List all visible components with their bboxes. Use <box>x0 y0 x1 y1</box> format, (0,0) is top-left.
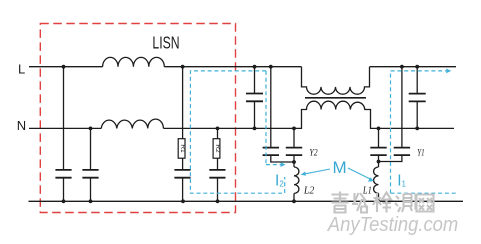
resistor R1 lower wire <box>182 158 184 170</box>
svg-text:M: M <box>333 158 347 177</box>
capacitor below R1 lower wire <box>182 178 184 202</box>
svg-text:Y2: Y2 <box>309 149 317 159</box>
inductor L1 (parasitic) coil <box>374 167 379 193</box>
watermark CJK glyph blocks <box>332 192 434 213</box>
noise current path I2 (cyan dashed) <box>190 71 284 193</box>
node Y2-L2 <box>292 160 296 164</box>
svg-text:R2: R2 <box>214 144 221 153</box>
capacitor X1 (L to N) wires <box>254 67 256 94</box>
svg-text:I1: I1 <box>397 172 406 189</box>
capacitor Y2a branch wire from L <box>270 67 272 148</box>
wire N line left segment <box>29 127 101 129</box>
wire N line middle segment <box>163 127 294 129</box>
transformer CM choke core <box>305 97 366 99</box>
svg-text:LISN: LISN <box>152 33 179 53</box>
node rail-R1 <box>181 199 185 203</box>
resistor R1 body <box>178 139 185 159</box>
capacitor X2 plates <box>409 94 426 102</box>
svg-text:N: N <box>17 118 26 133</box>
resistor R2 body <box>213 139 220 159</box>
node L-Y1b <box>400 65 404 69</box>
capacitor C2 plates <box>82 170 98 178</box>
node Y1-L1 <box>377 160 381 164</box>
noise current path I1 (cyan dashed) <box>391 71 457 193</box>
capacitor Y1a plates <box>370 148 386 156</box>
node rail-L2 <box>292 199 296 203</box>
capacitor Y1a branch wire from N <box>378 128 380 147</box>
wire L2 to ground rail <box>293 193 295 201</box>
svg-text:L2: L2 <box>303 186 314 197</box>
node rail-L1 <box>377 199 381 203</box>
node N-X1 <box>253 126 257 130</box>
svg-text:R1: R1 <box>179 144 186 153</box>
capacitor below R2 lower wire <box>217 178 219 202</box>
capacitor C1 plates <box>55 170 71 178</box>
resistor R1 branch wire from L <box>182 67 184 139</box>
capacitor Y1a lower wire <box>378 155 380 167</box>
node N-Y2b <box>292 126 296 130</box>
label M with mutual coupling arrows <box>305 168 371 179</box>
wire L line middle segment <box>164 66 301 68</box>
inductor LISN L-line choke <box>103 57 165 66</box>
capacitor Y2b plates <box>286 148 302 156</box>
capacitor Y2a plates <box>263 148 279 156</box>
capacitor Y1b plates <box>394 148 410 156</box>
capacitor C2 branch wires <box>90 128 92 170</box>
svg-text:Y1: Y1 <box>417 149 424 159</box>
capacitor below R1 plates <box>174 170 190 178</box>
capacitor Y1b branch wire from L <box>401 67 403 148</box>
node L-Y2a <box>269 65 273 69</box>
svg-text:I2: I2 <box>275 172 284 189</box>
inductor LISN N-line choke <box>101 119 163 128</box>
wire ground rail <box>29 200 464 202</box>
svg-text:L: L <box>18 61 25 76</box>
node L-X1 <box>253 65 257 69</box>
node N-Y1a <box>377 126 381 130</box>
wire L1 to ground rail <box>378 193 380 201</box>
resistor R2 branch wire from N <box>217 128 219 138</box>
capacitor X1 plates <box>246 94 263 102</box>
wire L line right segment <box>370 66 457 68</box>
capacitor Y2a lower wire to node <box>271 155 294 162</box>
LISN boundary box (red dashed) <box>40 24 235 213</box>
capacitor Y2b lower wire <box>293 155 295 167</box>
inductor L2 (parasitic) coil <box>294 167 299 193</box>
svg-text:L1: L1 <box>362 186 372 197</box>
node L-R1 <box>181 65 185 69</box>
capacitor X2 (output, L to N) wires <box>416 67 418 94</box>
wire L line left segment <box>29 66 103 68</box>
node N-C2 <box>89 126 93 130</box>
node rail-R2 <box>216 199 220 203</box>
transformer CM choke bottom winding <box>294 101 378 128</box>
capacitor C1 branch wires <box>63 67 65 170</box>
node L-X2 <box>415 65 419 69</box>
node rail-C2 <box>89 199 93 203</box>
svg-text:AnyTesting.com: AnyTesting.com <box>326 213 458 236</box>
arrowhead M to L2 <box>301 171 306 175</box>
capacitor below R2 plates <box>209 170 225 178</box>
capacitor Y1b lower wire to node <box>379 155 402 161</box>
wire N line right segment <box>378 127 455 129</box>
arrowhead M to L1 <box>368 177 374 181</box>
capacitor Y2b branch wire from N <box>293 128 295 147</box>
node rail-C1 <box>62 199 66 203</box>
arrowhead I1 exit path <box>446 69 451 74</box>
resistor R2 lower wire <box>217 158 219 170</box>
node L-C1 <box>62 65 66 69</box>
node N-X2 <box>415 126 419 130</box>
transformer CM choke top winding <box>302 67 370 95</box>
arrowhead I2 path <box>281 162 286 167</box>
node N-R2 <box>216 126 220 130</box>
